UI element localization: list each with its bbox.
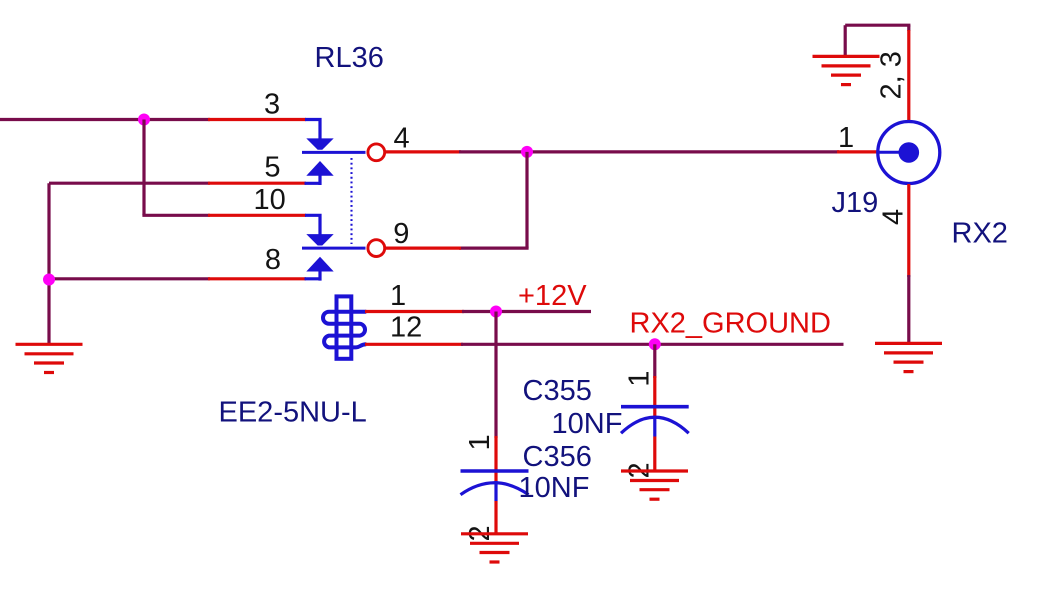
wire vertical from node A down to pin10: [142, 120, 145, 216]
connector J19 center pin line: [878, 151, 909, 154]
wire coil pin1 red segment: [365, 310, 464, 313]
ground GND4 under C355: [621, 471, 688, 499]
connector J19 circle: [878, 122, 940, 184]
svg-text:+12V: +12V: [518, 280, 587, 312]
wire pin10 red pin segment: [208, 214, 306, 217]
connector J19 pin 2,3 wire maroon top: [907, 25, 910, 31]
relay RL36 contact B exit to pin8: [305, 271, 321, 281]
wire pin4 net to J19: [459, 150, 839, 153]
capacitor C356 blue stem: [494, 481, 497, 501]
node C junction dot pin4 net: [521, 146, 533, 158]
svg-text:4: 4: [394, 123, 410, 155]
relay RL36 contact pin4 circle: [368, 144, 385, 161]
capacitor C355 top plate: [621, 405, 689, 409]
svg-text:1: 1: [624, 371, 656, 387]
connector J19 top wire left vertical to ground: [844, 25, 847, 57]
svg-text:12: 12: [390, 312, 422, 344]
capacitor C355 red pin segment top: [653, 376, 656, 417]
relay RL36 contact pin9 circle: [368, 240, 385, 257]
capacitor C355 blue stem: [653, 417, 656, 437]
svg-text:C356: C356: [523, 441, 592, 473]
ground GND1 left: [16, 344, 83, 372]
svg-text:RX2_GROUND: RX2_GROUND: [630, 308, 831, 340]
relay RL36 contact B pivot line: [302, 247, 366, 250]
wire J19 pin4 to ground maroon: [907, 275, 910, 345]
wire pin5 horizontal: [49, 182, 210, 185]
capacitor C355 red pin segment bottom: [653, 437, 656, 472]
svg-text:9: 9: [393, 218, 409, 250]
capacitor C355 wire maroon from node E: [653, 344, 656, 378]
wire vertical node C down: [525, 152, 528, 248]
svg-text:10: 10: [254, 184, 286, 216]
svg-text:EE2-5NU-L: EE2-5NU-L: [219, 397, 367, 429]
wire pin8 horizontal: [49, 277, 210, 280]
svg-text:2, 3: 2, 3: [876, 51, 908, 99]
relay coil winding path: [323, 312, 366, 348]
connector J19 pin4 red segment: [907, 184, 910, 277]
svg-text:4: 4: [878, 209, 910, 225]
capacitor C356 curved plate: [461, 483, 529, 495]
relay RL36 contact B down arrow: [306, 234, 333, 245]
svg-text:RL36: RL36: [315, 42, 384, 74]
connector J19 pin 2,3 red segment: [907, 30, 910, 121]
capacitor C356 top plate: [461, 469, 529, 473]
wire pin3 net horizontal: [0, 118, 210, 121]
svg-text:8: 8: [265, 244, 281, 276]
connector J19 top wire maroon horizontal: [845, 24, 910, 27]
wire +12V stub maroon: [462, 310, 591, 313]
node E junction dot RX2_GROUND: [649, 338, 661, 350]
svg-text:3: 3: [264, 89, 280, 121]
relay RL36 contact A exit to pin5: [305, 175, 321, 185]
wire coil pin12 red segment: [365, 343, 463, 346]
relay coil EE2-5NU-L core rectangle: [337, 296, 352, 358]
wire vertical C356 red pin segment: [494, 436, 497, 483]
svg-text:J19: J19: [832, 187, 879, 219]
relay RL36 contact A entry: [305, 120, 320, 139]
capacitor C355 curved plate: [621, 417, 689, 433]
relay RL36 contact A down arrow: [306, 138, 333, 149]
wire pin10 horizontal: [142, 214, 210, 217]
wire pin8 red pin segment: [208, 277, 306, 280]
svg-text:5: 5: [264, 152, 280, 184]
svg-text:RX2: RX2: [952, 218, 1008, 250]
ground GND2 top right: [813, 56, 880, 84]
svg-text:1: 1: [390, 280, 406, 312]
wire RX2_GROUND net: [461, 343, 844, 346]
wire left vertical pin5 to ground: [47, 183, 50, 345]
ground GND3 under J19: [875, 343, 942, 371]
capacitor C356 red pin segment bottom: [494, 501, 497, 534]
connector J19 pin1 red segment: [837, 150, 878, 153]
wire pin9 red pin segment: [385, 247, 461, 250]
svg-text:1: 1: [838, 122, 854, 154]
node A junction dot pin3: [138, 114, 150, 126]
relay RL36 contact B up arrow: [306, 257, 333, 272]
connector J19 center dot: [899, 142, 920, 163]
svg-text:1: 1: [464, 434, 496, 450]
svg-text:C355: C355: [523, 375, 592, 407]
relay RL36 contact A up arrow: [306, 161, 333, 176]
wire pin4 red pin segment: [385, 150, 461, 153]
relay RL36 contact A pivot line: [302, 151, 366, 154]
node D junction dot +12V: [490, 306, 502, 318]
node B junction dot pin8: [43, 274, 55, 286]
wire pin5 red pin segment: [208, 182, 306, 185]
wire pin9 horizontal maroon: [459, 247, 529, 250]
wire pin3 red pin segment: [208, 118, 306, 121]
relay RL36 contact B entry: [305, 215, 320, 234]
svg-text:10NF: 10NF: [552, 408, 623, 440]
svg-text:10NF: 10NF: [519, 472, 590, 504]
wire vertical +12V to C356 maroon: [494, 312, 497, 439]
relay RL36 mechanical link dotted line: [350, 158, 352, 244]
ground GND5 under C356: [461, 534, 528, 562]
